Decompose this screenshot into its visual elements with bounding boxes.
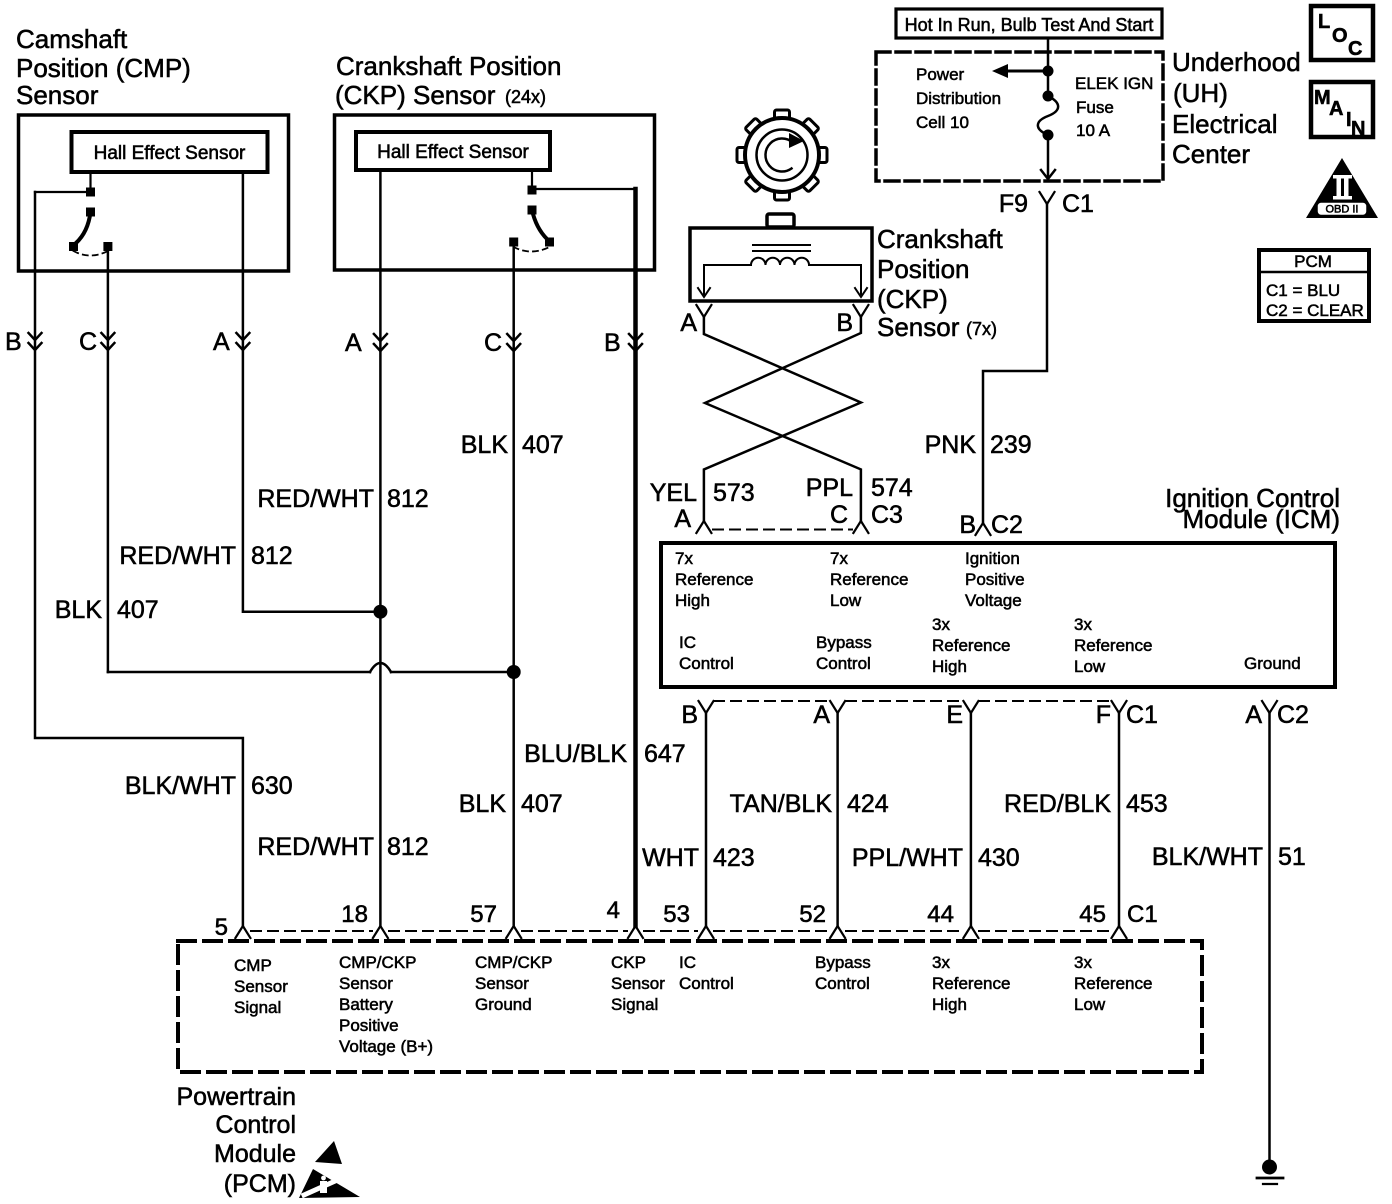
svg-text:High: High xyxy=(932,995,967,1014)
svg-text:Hall Effect Sensor: Hall Effect Sensor xyxy=(377,142,529,163)
svg-text:5: 5 xyxy=(215,914,228,941)
svg-text:(7x): (7x) xyxy=(966,319,997,339)
svg-text:Sensor: Sensor xyxy=(339,974,393,993)
svg-text:57: 57 xyxy=(470,901,497,928)
svg-text:A: A xyxy=(1245,701,1262,729)
svg-text:239: 239 xyxy=(990,431,1032,459)
svg-text:BLK/WHT: BLK/WHT xyxy=(1152,843,1263,871)
svg-text:Distribution: Distribution xyxy=(916,89,1001,108)
svg-text:(PCM): (PCM) xyxy=(224,1170,296,1198)
svg-text:C: C xyxy=(79,328,97,356)
svg-text:C1: C1 xyxy=(1127,901,1158,928)
svg-text:O: O xyxy=(1332,25,1348,47)
svg-text:18: 18 xyxy=(341,901,368,928)
svg-text:B: B xyxy=(959,511,976,539)
svg-text:RED/WHT: RED/WHT xyxy=(257,485,374,513)
svg-text:574: 574 xyxy=(871,474,913,502)
svg-text:812: 812 xyxy=(387,485,429,513)
svg-text:Control: Control xyxy=(679,654,734,673)
svg-text:407: 407 xyxy=(522,431,564,459)
svg-text:407: 407 xyxy=(117,596,159,624)
svg-text:RED/WHT: RED/WHT xyxy=(257,833,374,861)
svg-text:Voltage: Voltage xyxy=(965,591,1022,610)
svg-text:Hot In Run, Bulb Test And Star: Hot In Run, Bulb Test And Start xyxy=(905,15,1154,35)
svg-text:C: C xyxy=(1348,38,1362,60)
svg-text:Position (CMP): Position (CMP) xyxy=(16,53,191,83)
svg-text:N: N xyxy=(1351,118,1365,140)
svg-text:4: 4 xyxy=(607,897,620,924)
svg-text:Camshaft: Camshaft xyxy=(16,24,128,54)
svg-text:3x: 3x xyxy=(932,953,950,972)
svg-text:A: A xyxy=(213,328,230,356)
svg-text:F: F xyxy=(1096,701,1111,729)
svg-text:Crankshaft: Crankshaft xyxy=(877,224,1003,254)
svg-text:Control: Control xyxy=(679,974,734,993)
svg-text:Control: Control xyxy=(215,1111,296,1139)
svg-text:430: 430 xyxy=(978,844,1020,872)
svg-text:Ignition: Ignition xyxy=(965,549,1020,568)
svg-text:51: 51 xyxy=(1278,843,1306,871)
svg-text:Reference: Reference xyxy=(932,974,1010,993)
svg-text:Fuse: Fuse xyxy=(1076,98,1114,117)
svg-text:(24x): (24x) xyxy=(505,87,546,107)
svg-text:YEL: YEL xyxy=(650,479,697,507)
svg-text:B: B xyxy=(681,701,698,729)
svg-text:52: 52 xyxy=(799,901,826,928)
svg-text:BLK: BLK xyxy=(461,431,509,459)
svg-text:A: A xyxy=(813,701,830,729)
svg-text:407: 407 xyxy=(521,790,563,818)
svg-text:3x: 3x xyxy=(1074,953,1092,972)
svg-text:53: 53 xyxy=(663,901,690,928)
svg-text:C1 = BLU: C1 = BLU xyxy=(1266,281,1340,300)
svg-text:Bypass: Bypass xyxy=(816,633,872,652)
svg-text:Module: Module xyxy=(214,1140,296,1168)
svg-text:Reference: Reference xyxy=(830,570,908,589)
svg-text:PCM: PCM xyxy=(1294,252,1332,271)
svg-text:B: B xyxy=(604,329,621,357)
svg-text:45: 45 xyxy=(1079,901,1106,928)
svg-text:RED/BLK: RED/BLK xyxy=(1004,790,1111,818)
svg-text:424: 424 xyxy=(847,790,889,818)
svg-text:ELEK IGN: ELEK IGN xyxy=(1075,74,1153,93)
svg-text:647: 647 xyxy=(644,740,686,768)
svg-text:C2: C2 xyxy=(1277,701,1309,729)
svg-text:Power: Power xyxy=(916,65,965,84)
svg-text:IC: IC xyxy=(679,953,696,972)
svg-text:(CKP) Sensor: (CKP) Sensor xyxy=(335,80,496,110)
svg-text:573: 573 xyxy=(713,479,755,507)
svg-text:Ground: Ground xyxy=(475,995,532,1014)
svg-text:C1: C1 xyxy=(1062,190,1094,218)
svg-text:C2 = CLEAR: C2 = CLEAR xyxy=(1266,301,1364,320)
svg-text:(UH): (UH) xyxy=(1173,78,1228,108)
svg-text:Crankshaft Position: Crankshaft Position xyxy=(336,51,561,81)
svg-text:812: 812 xyxy=(251,542,293,570)
svg-text:IC: IC xyxy=(679,633,696,652)
svg-text:Powertrain: Powertrain xyxy=(177,1083,297,1111)
svg-text:7x: 7x xyxy=(675,549,693,568)
svg-text:F9: F9 xyxy=(999,190,1028,218)
svg-text:C3: C3 xyxy=(871,501,903,529)
svg-text:Positive: Positive xyxy=(339,1016,399,1035)
svg-text:Sensor: Sensor xyxy=(877,312,960,342)
svg-text:A: A xyxy=(1329,98,1343,120)
svg-text:CMP: CMP xyxy=(234,956,272,975)
svg-text:C2: C2 xyxy=(991,511,1023,539)
svg-text:Control: Control xyxy=(816,654,871,673)
svg-text:Low: Low xyxy=(1074,657,1106,676)
svg-text:PPL: PPL xyxy=(806,474,853,502)
svg-text:WHT: WHT xyxy=(642,844,699,872)
svg-text:7x: 7x xyxy=(830,549,848,568)
svg-text:A: A xyxy=(674,505,691,533)
svg-text:Reference: Reference xyxy=(1074,974,1152,993)
svg-text:Reference: Reference xyxy=(932,636,1010,655)
svg-text:3x: 3x xyxy=(1074,615,1092,634)
svg-text:Module (ICM): Module (ICM) xyxy=(1183,504,1340,534)
svg-text:Electrical: Electrical xyxy=(1172,109,1277,139)
svg-text:CMP/CKP: CMP/CKP xyxy=(475,953,552,972)
svg-text:Control: Control xyxy=(815,974,870,993)
svg-text:TAN/BLK: TAN/BLK xyxy=(730,790,833,818)
svg-text:C1: C1 xyxy=(1126,701,1158,729)
svg-text:BLK: BLK xyxy=(55,596,103,624)
svg-text:453: 453 xyxy=(1126,790,1168,818)
svg-text:E: E xyxy=(946,701,963,729)
svg-text:CMP/CKP: CMP/CKP xyxy=(339,953,416,972)
svg-text:3x: 3x xyxy=(932,615,950,634)
svg-text:PPL/WHT: PPL/WHT xyxy=(852,844,963,872)
svg-text:B: B xyxy=(5,328,22,356)
svg-text:L: L xyxy=(1318,11,1330,33)
svg-text:High: High xyxy=(675,591,710,610)
svg-text:Sensor: Sensor xyxy=(16,80,99,110)
svg-text:10 A: 10 A xyxy=(1076,121,1111,140)
svg-text:423: 423 xyxy=(713,844,755,872)
svg-text:PNK: PNK xyxy=(925,431,977,459)
svg-text:44: 44 xyxy=(927,901,954,928)
svg-text:Voltage (B+): Voltage (B+) xyxy=(339,1037,433,1056)
svg-text:(CKP): (CKP) xyxy=(877,284,948,314)
svg-text:Bypass: Bypass xyxy=(815,953,871,972)
svg-text:High: High xyxy=(932,657,967,676)
svg-text:Reference: Reference xyxy=(675,570,753,589)
svg-text:Signal: Signal xyxy=(611,995,658,1014)
svg-text:Center: Center xyxy=(1172,139,1250,169)
svg-text:Position: Position xyxy=(877,254,970,284)
svg-text:B: B xyxy=(836,309,853,337)
svg-text:BLK: BLK xyxy=(459,790,507,818)
svg-text:Reference: Reference xyxy=(1074,636,1152,655)
svg-text:RED/WHT: RED/WHT xyxy=(119,542,236,570)
svg-text:Sensor: Sensor xyxy=(475,974,529,993)
svg-text:C: C xyxy=(484,329,502,357)
svg-text:Low: Low xyxy=(830,591,862,610)
svg-text:Hall Effect Sensor: Hall Effect Sensor xyxy=(94,143,246,164)
svg-text:Underhood: Underhood xyxy=(1172,47,1301,77)
svg-text:Sensor: Sensor xyxy=(234,977,288,996)
svg-text:BLU/BLK: BLU/BLK xyxy=(524,740,627,768)
svg-text:Battery: Battery xyxy=(339,995,393,1014)
svg-text:Sensor: Sensor xyxy=(611,974,665,993)
svg-text:OBD II: OBD II xyxy=(1325,204,1358,216)
svg-text:812: 812 xyxy=(387,833,429,861)
svg-text:630: 630 xyxy=(251,772,293,800)
svg-text:Ground: Ground xyxy=(1244,654,1301,673)
svg-text:A: A xyxy=(680,309,697,337)
svg-text:C: C xyxy=(830,501,848,529)
svg-text:CKP: CKP xyxy=(611,953,646,972)
svg-text:Cell 10: Cell 10 xyxy=(916,113,969,132)
svg-text:Positive: Positive xyxy=(965,570,1025,589)
svg-text:Signal: Signal xyxy=(234,998,281,1017)
svg-text:BLK/WHT: BLK/WHT xyxy=(125,772,236,800)
svg-text:A: A xyxy=(345,329,362,357)
svg-text:Low: Low xyxy=(1074,995,1106,1014)
